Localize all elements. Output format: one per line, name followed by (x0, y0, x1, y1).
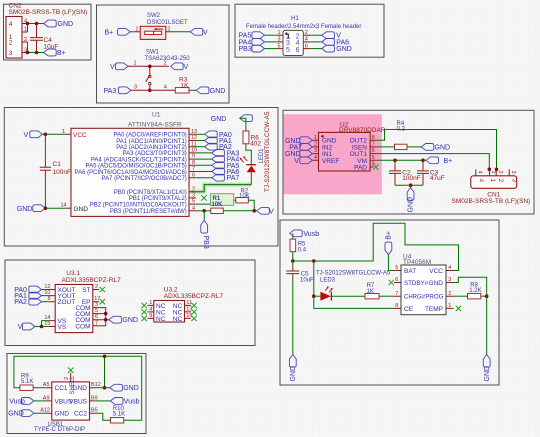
svg-text:B+: B+ (57, 50, 66, 57)
wire PA1 (42, 295, 49, 297)
svg-text:1: 1 (278, 30, 281, 36)
net flag B+ vertical (385, 231, 392, 255)
junction (495, 168, 499, 172)
svg-text:PA2 (ADC2/AIN1/PCINT2): PA2 (ADC2/AIN1/PCINT2) (116, 145, 187, 151)
svg-text:CE: CE (404, 306, 414, 313)
svg-text:4: 4 (477, 179, 484, 183)
svg-text:VS: VS (58, 324, 67, 331)
svg-text:PA2: PA2 (14, 299, 27, 306)
resistor R10 (110, 406, 125, 423)
svg-text:6: 6 (305, 43, 308, 49)
capacitor C1 (40, 134, 71, 208)
wire R9 to CC1 (33, 387, 46, 389)
wire B+ net bottom (28, 52, 44, 54)
svg-text:3: 3 (278, 37, 281, 43)
SW1 bottom bar pins 3-4 (131, 89, 175, 91)
svg-text:B+: B+ (385, 231, 392, 240)
capacitor C4 (30, 24, 58, 53)
svg-text:ADXL335BCPZ-RL7: ADXL335BCPZ-RL7 (62, 277, 122, 284)
junction (104, 318, 108, 322)
no-connect X marks U3.2 left (142, 303, 147, 308)
no-connect X on PB1 (201, 195, 206, 200)
svg-text:2: 2 (497, 179, 504, 183)
svg-text:100nF: 100nF (53, 169, 71, 176)
svg-text:1K: 1K (367, 289, 374, 295)
svg-text:1: 1 (135, 26, 138, 32)
net flag PA7 (212, 174, 240, 182)
net flag GND (17, 205, 46, 213)
svg-text:10uF: 10uF (300, 278, 314, 284)
wire R4 to GND (407, 146, 421, 148)
svg-text:PB2 (PCINT10/INT0/OC0A/CKOUT): PB2 (PCINT10/INT0/OC0A/CKOUT) (90, 202, 187, 208)
U4 left pin numbers (395, 265, 398, 309)
junction (252, 209, 256, 213)
wire GND bus vertical (104, 356, 106, 387)
wire R8 to GND column (481, 295, 487, 297)
U1 right pin stubs (189, 134, 196, 211)
connector CN1 (471, 169, 518, 188)
junction (312, 259, 316, 263)
selection highlight pink (284, 114, 382, 194)
capacitor C2 (389, 160, 421, 185)
svg-text:GND: GND (210, 88, 226, 95)
U2 left pin numbers (314, 135, 317, 161)
wire PA1 (196, 140, 205, 142)
SW1 actuator (146, 66, 151, 90)
U3.1 right pin numbers (94, 284, 100, 326)
svg-text:PB0 (PCINT8/XTAL1/CLKI): PB0 (PCINT8/XTAL1/CLKI) (114, 190, 187, 196)
net flag PA4 (239, 39, 265, 47)
junction (44, 133, 48, 137)
pin 4 stub (22, 23, 28, 25)
svg-text:PB1 (PCINT9/XTAL2): PB1 (PCINT9/XTAL2) (129, 196, 187, 202)
net flag GND right (110, 384, 139, 392)
USB1 right pin names (69, 385, 87, 418)
svg-text:GND: GND (211, 116, 227, 123)
junction (35, 22, 39, 26)
net flag V (257, 207, 274, 215)
svg-text:TYPE-C DT6P-DIP: TYPE-C DT6P-DIP (34, 427, 85, 433)
net flag Vusb (9, 398, 34, 406)
U3.1 right pin stubs (93, 290, 99, 326)
wire COM to GND (106, 319, 109, 321)
net flag GND pin3 (285, 150, 312, 158)
svg-text:CC1: CC1 (55, 385, 68, 392)
no-connect X on PAD (373, 164, 378, 169)
svg-text:BAT: BAT (404, 268, 416, 275)
pin 1 marker dot (285, 33, 287, 35)
svg-text:SW2: SW2 (147, 13, 161, 19)
svg-text:V: V (184, 64, 189, 71)
block frame U1 (4, 108, 278, 247)
svg-text:3: 3 (511, 179, 518, 183)
wire LED CE vertical (314, 261, 394, 308)
svg-text:47uF: 47uF (430, 175, 445, 182)
svg-text:402: 402 (250, 140, 261, 147)
U3.1 left pin numbers (44, 284, 50, 327)
svg-text:ATTINY84A-SSFR: ATTINY84A-SSFR (128, 122, 182, 129)
wire PA6 (196, 171, 212, 173)
wire R6 to LED1 (246, 144, 251, 165)
junction (104, 312, 108, 316)
USB1 shell pin stub (70, 373, 72, 382)
IC U4 body (401, 265, 446, 315)
svg-text:PB3 (PCINT11/RESET#/dW): PB3 (PCINT11/RESET#/dW) (110, 209, 187, 215)
svg-text:STDBY#: STDBY# (404, 280, 429, 287)
svg-text:1: 1 (24, 27, 27, 33)
net flag GND pin1 (285, 137, 312, 145)
net flag B+ (105, 28, 131, 36)
no-connect X marks U3.2 right (191, 303, 196, 308)
SW2 pin stubs (134, 31, 174, 33)
IC U3.1 body (55, 285, 93, 333)
svg-text:NC: NC (156, 316, 166, 323)
svg-text:1.2K: 1.2K (469, 288, 481, 294)
svg-text:GND: GND (408, 197, 415, 213)
net flag GND (196, 87, 225, 95)
svg-text:GND: GND (55, 411, 70, 418)
net flag V (24, 131, 43, 139)
svg-text:1: 1 (489, 179, 496, 183)
net flag GND top (211, 115, 253, 123)
wire ISEN to R4 (377, 146, 395, 148)
U4 right pin numbers (448, 265, 451, 309)
svg-text:V: V (24, 132, 29, 139)
wire to PB3 flag (203, 211, 205, 220)
svg-text:TSA623G43-250: TSA623G43-250 (145, 56, 191, 62)
svg-text:3: 3 (9, 50, 13, 57)
U4 right pin stubs (446, 271, 454, 309)
wire GND pin to R8 column (454, 277, 487, 354)
wire CC2 to R10 (96, 413, 111, 420)
net flag GND (421, 144, 450, 152)
LED LED1 (240, 156, 257, 184)
svg-text:V: V (203, 29, 208, 36)
svg-text:4: 4 (9, 21, 13, 28)
wire B9 to Vusb (96, 400, 111, 402)
wire PA5 (196, 164, 212, 166)
junction (421, 159, 425, 163)
resistor R2 (236, 189, 250, 203)
wire GND to A12 (34, 412, 46, 414)
U4 left pin names (404, 268, 429, 313)
U3.1 left pin stubs (49, 290, 55, 327)
wire Vusb to VBUS (34, 400, 46, 402)
svg-text:GND: GND (290, 366, 297, 382)
net flag GND vertical left (289, 355, 296, 382)
net flag Vusb right (110, 398, 139, 406)
net flag PB3 vertical (201, 221, 209, 249)
no-connect X on STDBY (389, 280, 394, 285)
svg-text:TEMP: TEMP (425, 306, 443, 313)
svg-text:V: V (294, 158, 299, 165)
net flag GND (44, 20, 73, 28)
svg-text:ZOUT: ZOUT (58, 299, 76, 306)
svg-text:1K: 1K (181, 82, 190, 89)
svg-text:PA7: PA7 (227, 175, 240, 182)
USB1 left pin names (55, 385, 73, 418)
svg-text:U1: U1 (152, 112, 161, 119)
svg-text:GND: GND (17, 206, 33, 213)
wire PA7 (196, 177, 212, 179)
svg-text:PROG: PROG (425, 294, 443, 301)
resistor R7 (365, 283, 379, 299)
connector CN2 body (6, 17, 22, 59)
wire COM bus (99, 308, 106, 326)
svg-text:PAD: PAD (354, 165, 367, 172)
block frame U4 (280, 220, 499, 385)
U2 right pin numbers (372, 135, 375, 168)
wire PB3 (265, 48, 277, 50)
right pin stubs (303, 35, 310, 48)
svg-text:SM02B-SRSS-TB (LF)(SN): SM02B-SRSS-TB (LF)(SN) (452, 198, 531, 205)
U3.2 right pin stubs (185, 305, 191, 318)
wire SW2 to V (174, 31, 191, 33)
U3.2 left pin names (156, 303, 166, 323)
net flag PA7 (289, 144, 312, 152)
wire OUT1 to CN1 (377, 154, 490, 170)
wire pins 2-3 tie (27, 42, 29, 53)
wire GND (310, 48, 322, 50)
net flag PA1 (205, 137, 232, 145)
net flag B+ (426, 157, 452, 165)
svg-text:GND: GND (484, 366, 491, 382)
pin 3 stub (22, 52, 28, 54)
net flag PA6 (322, 39, 349, 47)
svg-text:B+: B+ (444, 158, 453, 165)
svg-text:2: 2 (167, 26, 170, 32)
net flag PA3 (104, 87, 132, 95)
net flag PA5 (212, 162, 240, 170)
U3.2 right pin numbers (186, 300, 192, 319)
junction (202, 209, 206, 213)
wire PA4 (196, 158, 212, 160)
svg-text:PB3: PB3 (239, 46, 252, 53)
wire PA5 (265, 34, 277, 36)
net flag PA2 (14, 298, 41, 306)
wire R1 to V flag (223, 210, 256, 212)
svg-text:V: V (269, 208, 274, 215)
wire GND to R6 (240, 118, 246, 131)
svg-text:CC2: CC2 (74, 411, 87, 418)
svg-text:PB3: PB3 (202, 236, 209, 249)
svg-text:0.2: 0.2 (397, 127, 406, 133)
U3.2 right pin names (173, 303, 183, 323)
wire PA4 (265, 41, 277, 43)
U1 right pin numbers (191, 129, 197, 212)
net flag V (190, 28, 208, 36)
svg-text:V: V (110, 64, 115, 71)
junction (291, 259, 295, 263)
no-connect X on shell (68, 368, 73, 373)
net flag V (294, 157, 312, 165)
resistor R4 (395, 121, 408, 150)
net flag Vusb (290, 230, 320, 238)
highlighted net glow LED1 (189, 185, 251, 192)
svg-text:5: 5 (278, 43, 281, 49)
wire R5 down (292, 252, 294, 261)
junction (312, 294, 316, 298)
junction (485, 294, 489, 298)
svg-text:A12: A12 (40, 408, 50, 414)
svg-text:4: 4 (477, 171, 483, 174)
net flag V (322, 32, 342, 40)
svg-text:H1: H1 (291, 16, 299, 22)
IC U3.2 body (154, 301, 185, 323)
svg-text:5.1K: 5.1K (113, 412, 125, 418)
svg-text:1: 1 (490, 171, 496, 174)
USB1 right pin stubs (90, 388, 96, 414)
junction (44, 206, 48, 210)
block frame H1 (235, 4, 384, 57)
SW1 top bar pins 1-2 (128, 65, 169, 67)
capacitor C3 (417, 160, 445, 185)
junction (409, 183, 413, 187)
USB1 left pin stubs (46, 388, 52, 414)
U3.1 left pin names (58, 287, 76, 331)
svg-text:PA7 (PCINT7/ICP/OC0B/ADC7): PA7 (PCINT7/ICP/OC0B/ADC7) (102, 176, 187, 182)
U4 left pin stubs (394, 271, 401, 309)
capacitor C5 (286, 261, 314, 355)
wire B+ to SW2 (130, 31, 134, 33)
wire Vusb net to VCC staircase (293, 223, 459, 270)
net flag GND vertical right (483, 355, 490, 382)
junction (40, 325, 44, 329)
junction (488, 168, 492, 172)
svg-text:TP4056M: TP4056M (403, 259, 431, 266)
svg-text:0.4: 0.4 (298, 247, 307, 253)
R1 label highlight box (211, 194, 234, 206)
net flag PB3 (239, 45, 265, 53)
net flag B+ (44, 49, 66, 57)
net flag V (18, 323, 35, 331)
wire PA6 (310, 41, 322, 43)
header H1 body (283, 30, 303, 55)
resistor R8 (468, 282, 482, 299)
net flag PA2 (205, 143, 232, 151)
wire B12 to GND (96, 387, 110, 389)
wire PB0 to LED1 (189, 185, 251, 192)
net flag PA4 (212, 156, 240, 164)
svg-text:GND: GND (122, 317, 138, 324)
junction (35, 51, 39, 55)
wire PROG to R8 (454, 295, 468, 297)
wire V to VS pins (35, 321, 49, 327)
block frame U2 (283, 110, 534, 214)
wire PB3/RESET (196, 210, 211, 212)
wire Vusb to R5 (292, 233, 294, 239)
svg-text:GND: GND (58, 21, 74, 28)
junction (103, 355, 107, 359)
svg-text:NC: NC (173, 316, 183, 323)
svg-text:PA3 (ADC3/T0/PCINT3): PA3 (ADC3/T0/PCINT3) (123, 151, 187, 157)
wire C2 C3 to GND (395, 185, 423, 187)
wire R7 to CHRG (379, 295, 394, 297)
svg-text:SW1: SW1 (146, 50, 160, 56)
switch SW2 body (140, 26, 166, 39)
svg-text:ADXL335BCPZ-RL7: ADXL335BCPZ-RL7 (164, 293, 224, 300)
junction (393, 159, 397, 163)
svg-text:5.1K: 5.1K (21, 379, 33, 385)
block frame U3 (5, 260, 255, 346)
U1 right pin names (75, 133, 187, 215)
svg-text:VCC: VCC (73, 132, 87, 139)
left pin stubs (276, 35, 283, 48)
svg-text:2: 2 (164, 61, 167, 67)
svg-text:6: 6 (296, 47, 300, 54)
svg-text:PA4 (ADC4/USCK/SCL/T1/PCINT4): PA4 (ADC4/USCK/SCL/T1/PCINT4) (91, 157, 187, 163)
svg-text:Vusb: Vusb (124, 398, 140, 405)
svg-text:GND: GND (123, 385, 139, 392)
net flag PA6 (212, 168, 240, 176)
svg-text:5: 5 (286, 47, 290, 54)
svg-text:GND: GND (74, 206, 89, 213)
wire VM to B+ (377, 159, 426, 161)
net flag PA5 (239, 32, 265, 40)
wire PA0 (42, 289, 49, 291)
pin 14 stub GND (65, 207, 71, 209)
wire PA2 (42, 301, 49, 303)
U3.1 right pin names (75, 287, 90, 330)
U3.2 left pin numbers (149, 300, 152, 319)
net flag PA0 (205, 131, 232, 139)
svg-text:VREF: VREF (322, 158, 339, 165)
svg-text:GND: GND (429, 280, 444, 287)
svg-text:PA6 (PCINT6/OC1A/SDA/MOSI/DI/A: PA6 (PCINT6/OC1A/SDA/MOSI/DI/ADC6) (75, 170, 187, 176)
junction (103, 386, 107, 390)
wire R3 to GND (189, 89, 196, 91)
no-connect X on TEMP (456, 306, 461, 311)
svg-text:PA5 (ADC5/DO/MISO/OC1B/PCINT5): PA5 (ADC5/DO/MISO/OC1B/PCINT5) (86, 164, 187, 170)
svg-text:Vusb: Vusb (303, 231, 319, 238)
svg-text:TJ-S2012SW8TGLCCW-A5: TJ-S2012SW8TGLCCW-A5 (316, 271, 391, 277)
svg-text:2: 2 (497, 171, 503, 174)
block frame CN2 (4, 4, 92, 60)
block frame USB (7, 354, 146, 434)
svg-text:PA1 (ADC1/AIN0/PCINT1): PA1 (ADC1/AIN0/PCINT1) (116, 139, 187, 145)
U2 left pin stubs (312, 140, 318, 160)
junction (26, 22, 30, 26)
svg-text:VCC: VCC (429, 268, 443, 275)
svg-text:LED3: LED3 (320, 277, 336, 283)
wire PA2 (196, 146, 205, 148)
wire V (310, 34, 322, 36)
LED LED3 (314, 286, 365, 300)
net flag V left (110, 63, 128, 71)
svg-text:C1: C1 (53, 161, 62, 168)
net flag GND vertical (407, 188, 414, 213)
wire OUT2 to CN1 (377, 130, 497, 170)
IC U1 body (71, 128, 189, 216)
svg-text:2: 2 (9, 40, 13, 47)
svg-text:10K: 10K (239, 193, 250, 199)
svg-text:4: 4 (164, 85, 167, 91)
svg-text:CHRG#: CHRG# (404, 295, 426, 301)
wire B+ to BAT (388, 255, 394, 271)
block frame switches (97, 5, 230, 103)
wire PA0 (196, 133, 205, 135)
svg-text:3: 3 (134, 85, 137, 91)
net flag GND (322, 45, 352, 53)
svg-text:10K: 10K (212, 202, 224, 208)
svg-text:3: 3 (510, 171, 516, 174)
wire GND net top (28, 23, 44, 25)
net flag PA0 (14, 286, 41, 294)
svg-text:1: 1 (134, 61, 137, 67)
junction (148, 89, 152, 93)
net flag GND (109, 316, 138, 324)
svg-text:100nF: 100nF (402, 175, 420, 182)
